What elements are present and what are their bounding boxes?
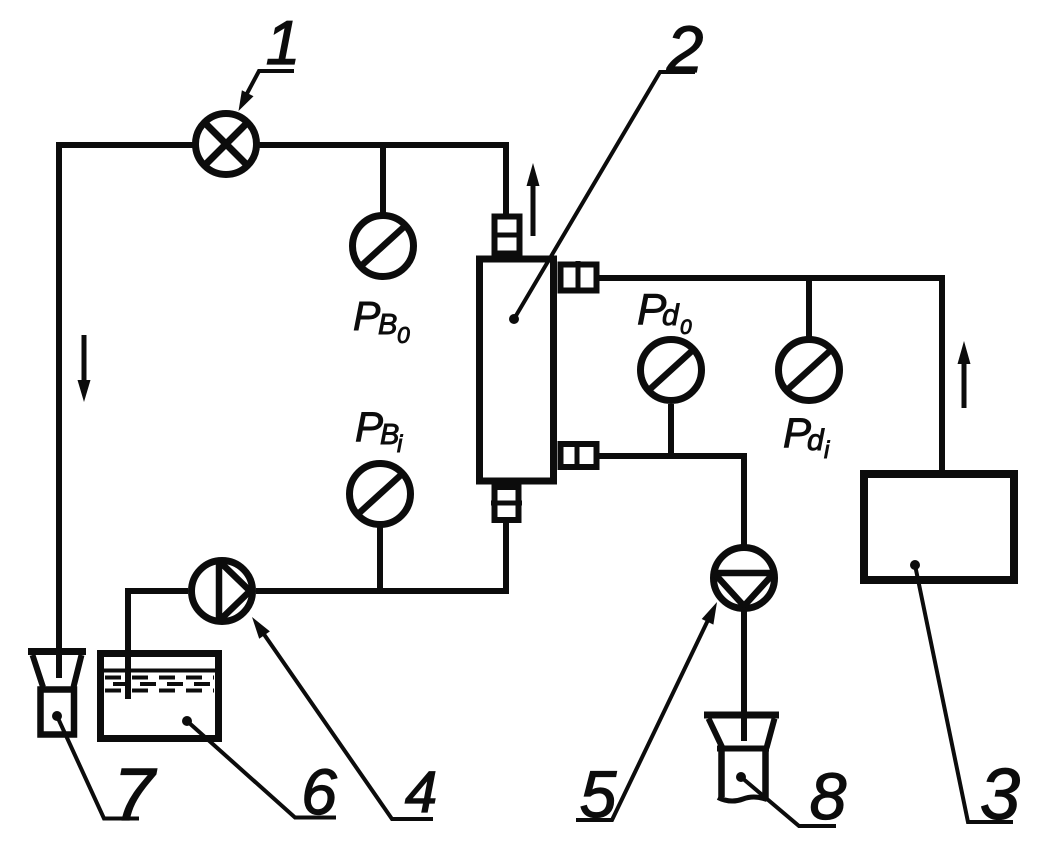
svg-text:6: 6 bbox=[301, 756, 337, 828]
svg-text:1: 1 bbox=[266, 9, 300, 78]
svg-text:8: 8 bbox=[810, 759, 847, 833]
svg-text:3: 3 bbox=[980, 755, 1020, 835]
svg-text:B: B bbox=[378, 309, 397, 341]
svg-text:d: d bbox=[662, 299, 680, 332]
svg-text:7: 7 bbox=[113, 753, 157, 836]
svg-text:P: P bbox=[353, 293, 381, 339]
svg-text:4: 4 bbox=[405, 760, 437, 825]
svg-text:0: 0 bbox=[397, 322, 410, 348]
svg-text:i: i bbox=[397, 431, 403, 458]
svg-text:2: 2 bbox=[666, 12, 704, 86]
svg-text:0: 0 bbox=[680, 316, 692, 339]
svg-text:d: d bbox=[807, 424, 825, 457]
svg-text:P: P bbox=[355, 403, 383, 450]
svg-text:5: 5 bbox=[580, 757, 617, 831]
svg-text:i: i bbox=[824, 437, 830, 464]
